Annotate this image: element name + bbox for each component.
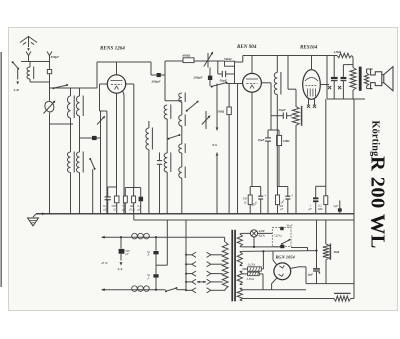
wire x97 down: [96, 62, 98, 88]
wire plate-choke link: [271, 115, 277, 117]
capacitor barr bottom: [280, 245, 284, 248]
selector row 2: [186, 263, 192, 265]
svg-text:REN 904: REN 904: [237, 44, 257, 50]
coil L7: [146, 128, 149, 150]
wire barr right: [291, 247, 308, 249]
wire variometer down: [49, 113, 51, 125]
arrow to L.A: [120, 254, 122, 261]
wire x271 down: [270, 83, 272, 130]
group2 top link: [278, 186, 288, 188]
resistor R-field zigzag: [334, 296, 351, 301]
dial lamp: [250, 230, 257, 237]
wire x237 grid leak: [237, 84, 239, 214]
svg-text:50µF: 50µF: [286, 224, 293, 228]
svg-text:4,5kΩ: 4,5kΩ: [333, 50, 342, 54]
wire x167 rail-drop: [166, 220, 168, 265]
wire L6 bottom to bus: [181, 178, 183, 214]
wire L3b top: [79, 88, 81, 96]
antenna symbol: [20, 37, 37, 43]
wire y124 run: [50, 123, 74, 125]
selector row 4: [186, 281, 192, 283]
wire grid REN904: [226, 83, 242, 85]
resistor 4.5kΩ zigzag: [337, 53, 352, 58]
wire g1 box bottom: [249, 205, 251, 214]
wire L3a top: [70, 88, 72, 96]
wire y100 to coil column: [165, 100, 182, 102]
mains line1: [102, 236, 225, 238]
wire U1 bottom lead: [116, 93, 118, 196]
HT wire y251: [242, 250, 316, 253]
wire y61 run2: [165, 60, 183, 62]
svg-text:L.A: L.A: [117, 267, 124, 271]
wire L3a bottom: [70, 118, 72, 124]
tube U3 pin left: [308, 99, 310, 105]
switch S2 arm: [89, 158, 91, 160]
capacitor 200µF black: [157, 73, 161, 77]
TA arrowhead upper: [216, 128, 219, 131]
capacitor C-out1: [331, 77, 338, 79]
capacitor C4 bars: [157, 160, 162, 162]
wire B+ x354 long: [353, 99, 355, 299]
rail y289: [242, 289, 306, 291]
wire coil bottom to y82: [29, 79, 31, 82]
wire y99 bottom run: [327, 98, 365, 100]
resistor 1MΩ-2 box: [277, 135, 282, 145]
capacitor barr top: [280, 227, 284, 230]
wire C-out1 leads: [333, 56, 335, 77]
transformer T1 core: [359, 67, 362, 91]
svg-text:Körting: Körting: [370, 121, 381, 157]
wire x151 down: [150, 62, 152, 75]
capacitor 200µF-2 black: [208, 76, 212, 80]
tube U2 internals: [246, 78, 258, 80]
wire U4 bottom-left: [272, 278, 278, 284]
coil L6 seg4: [179, 167, 182, 178]
variometer feed: [49, 88, 51, 101]
trimmer C2 arrow: [204, 53, 213, 67]
svg-text:µF: µF: [104, 208, 108, 211]
tube U2 REN904 envelope: [243, 73, 262, 92]
T2 winding W3: [237, 271, 242, 284]
transformer T1 primary: [352, 56, 354, 58]
capacitor 50µF g1: [258, 195, 263, 197]
wire L6 link3: [181, 153, 183, 167]
wire T1 sec bottom: [366, 86, 368, 89]
svg-text:1MΩ: 1MΩ: [283, 139, 290, 143]
svg-text:45 W: 45 W: [101, 261, 108, 265]
capacitor 50µF coupling: [218, 73, 223, 75]
junction HT: [315, 250, 317, 252]
wire L4a bottom to bus: [70, 173, 72, 214]
grid line RENS: [100, 83, 108, 85]
wire fork to cap: [49, 56, 51, 70]
wire L8 bottom: [276, 95, 278, 116]
fuse2 leads: [242, 273, 247, 275]
svg-text:4,8V: 4,8V: [258, 229, 266, 233]
capacitor 10µF: [267, 130, 269, 138]
selector row 5: [186, 289, 192, 291]
chassis ground bus: [36, 213, 354, 215]
wire x242 corner: [242, 56, 244, 63]
wire TA lower to bus: [216, 153, 218, 214]
T2 W4 leads: [240, 287, 243, 289]
capacitor 1µF blk: [313, 197, 318, 199]
wire U2 plate right: [261, 82, 271, 84]
wire TA upper: [216, 84, 218, 131]
capacitor 5µF blk small: [338, 208, 342, 211]
tube U4 RGN1054 envelope: [274, 263, 291, 280]
wire riser x133 upper: [133, 84, 135, 188]
speaker LS magnet: [371, 69, 382, 89]
wire lamp right: [258, 232, 273, 234]
wire L5 link: [166, 119, 168, 153]
capacitor 5µF m1: [155, 237, 157, 251]
choke1 loops: [132, 233, 138, 239]
wire grid res bottom to bus: [295, 126, 297, 214]
wire 5kΩ bottom: [325, 260, 327, 284]
capacitor 0.1µF cl: [107, 187, 109, 197]
capacitor 50µF-2: [277, 115, 283, 117]
tuning capacitor C1 line: [100, 111, 102, 214]
svg-text:10µF: 10µF: [258, 138, 266, 142]
junction d3: [155, 289, 157, 291]
svg-text:51kΩ: 51kΩ: [224, 57, 232, 61]
mains arrow1: [102, 236, 105, 239]
mains arrow2: [102, 288, 105, 291]
antenna Y fork: [26, 52, 31, 56]
capacitor 2µF: [313, 268, 320, 269]
svg-text:5kΩ: 5kΩ: [334, 250, 340, 254]
coil L8 anode choke: [274, 73, 277, 95]
tube U3 RES164 envelope: [303, 70, 321, 100]
wire U2 anode top: [251, 56, 253, 74]
selector plug link: [197, 281, 206, 283]
svg-text:1MΩ: 1MΩ: [217, 110, 224, 114]
capacitor C4 line: [159, 153, 161, 161]
coil L4b: [76, 152, 79, 173]
wire U1 plate-right link: [126, 83, 134, 85]
wire y55 top run: [243, 55, 337, 57]
svg-text:+: +: [291, 194, 293, 198]
wire L8 top: [276, 56, 278, 73]
wire 1MΩ-2 riser: [278, 130, 280, 135]
transformer T2 primary: [224, 237, 226, 242]
wire 5kΩ top: [325, 220, 327, 244]
capacitor C-pad black: [92, 136, 97, 140]
wire T1 primary bottom: [352, 90, 354, 99]
wire x316 drop: [316, 220, 318, 268]
wire C-out2 leads: [342, 65, 344, 77]
switch barr: [281, 243, 283, 245]
resistor 500Ω g2 box: [276, 195, 280, 205]
T2 winding W2: [237, 252, 242, 266]
wire x325 down: [325, 99, 327, 186]
wire L4b top: [79, 138, 81, 152]
capacitor 350pF Y fork: [47, 52, 52, 56]
switch S5 arm: [168, 138, 170, 140]
wire left column to bus: [49, 124, 51, 214]
wire U4 right: [291, 267, 299, 269]
tuning capacitor C3 arrow: [202, 116, 210, 124]
tube U1 RENS1264 envelope: [107, 75, 125, 93]
wire y130 link: [268, 129, 279, 131]
capacitor black cl4: [139, 197, 144, 202]
svg-text:RES164: RES164: [300, 45, 318, 51]
antenna coil L1: [27, 67, 30, 79]
resistor box cl3: [132, 196, 136, 203]
mains line2: [102, 289, 166, 291]
transformer T2 core: [231, 230, 233, 301]
wire y75 run: [151, 74, 165, 76]
wire box right down: [234, 66, 236, 83]
wire 1MΩ to bus: [228, 115, 230, 214]
wire y62 run: [97, 61, 151, 63]
wire y89 link: [288, 88, 296, 90]
coil L6 seg3: [179, 144, 182, 153]
arrowhead to L.B: [16, 82, 19, 85]
resistor box cl2: [123, 196, 127, 203]
wire coil top: [29, 62, 31, 68]
wire y265 link: [156, 264, 167, 266]
coil L3a: [67, 96, 70, 118]
choke2 loops: [132, 286, 138, 292]
barretter box dashed: [272, 228, 291, 247]
wire L5b to bus: [166, 172, 168, 214]
wire y61 run4: [208, 60, 225, 62]
resistor 5000Ω box: [114, 196, 119, 203]
scan dark left edge artifact: [0, 52, 2, 287]
resistor 500Ω g1 box: [248, 195, 252, 205]
wire cap down: [49, 74, 51, 82]
selector rail: [185, 220, 187, 290]
resistor 1MΩ box mid: [227, 107, 231, 115]
svg-text:200µF: 200µF: [151, 80, 162, 84]
wire U3 anode right: [320, 84, 329, 86]
wire L3b bottom to y138: [79, 116, 81, 138]
tube U1 internals: [111, 80, 123, 82]
coil L5b: [164, 153, 167, 172]
T2 W3 leads: [240, 270, 243, 272]
wire 1MΩ-2 down: [278, 146, 280, 187]
wire m2 down: [155, 278, 157, 290]
coil L3b: [76, 96, 79, 116]
wire T1 sec top: [366, 69, 368, 73]
speaker LS cone: [384, 67, 393, 91]
phone jack pin 1: [328, 86, 331, 89]
wire L7 top stub: [148, 121, 150, 128]
cluster link y187 right: [125, 187, 140, 189]
svg-text:50µF: 50µF: [279, 108, 287, 112]
group1 top link: [250, 186, 261, 188]
wire U2 cathode down: [251, 92, 253, 186]
wire y88 run: [50, 87, 98, 89]
resistor 600Ω box: [183, 58, 194, 63]
wire m-mid: [155, 254, 157, 265]
svg-text:5µF: 5µF: [333, 204, 338, 208]
wire L7 bottom to bus: [148, 150, 150, 214]
wire U1 anode top: [116, 62, 118, 75]
variometer L2: [43, 100, 55, 113]
band switch arm SA: [53, 87, 55, 89]
tuning capacitor C3 line: [205, 111, 207, 129]
svg-text:µF: µF: [280, 208, 284, 211]
T2 winding W1: [237, 234, 242, 247]
junction d2: [155, 236, 157, 238]
coil L4a: [67, 152, 70, 173]
fuse1 leads: [242, 268, 247, 270]
resistor 0.2MΩ box: [324, 196, 328, 205]
coil L6 seg2: [179, 115, 182, 126]
wire switch stub: [17, 70, 19, 80]
svg-text:2µF: 2µF: [307, 272, 314, 276]
wire y61 run3: [194, 60, 208, 62]
coil L5a: [164, 105, 167, 119]
wire switch to selector: [176, 289, 186, 291]
svg-text:350µF: 350µF: [50, 55, 61, 59]
transformer T1 secondary: [364, 73, 368, 86]
wire L4b bottom to bus: [79, 173, 81, 214]
wire antenna bus y61: [21, 61, 50, 63]
wire x165 vertical: [164, 61, 166, 101]
capacitor 50µF g2: [285, 195, 290, 197]
phone jack pin 2: [338, 86, 341, 89]
tube U3 pin right: [314, 99, 316, 105]
cluster link y187 left: [108, 186, 117, 188]
svg-text:(0,5): (0,5): [130, 208, 135, 211]
antenna arrowhead: [27, 48, 30, 51]
tube U3 internals: [305, 78, 318, 82]
svg-text:+: +: [264, 194, 266, 198]
wire x327 down: [326, 56, 328, 100]
tube U4 internals: [279, 265, 284, 268]
svg-text:R 200 WL: R 200 WL: [367, 156, 389, 249]
variometer arrow: [44, 102, 55, 114]
svg-text:T.A: T.A: [212, 143, 218, 147]
wire L6 link2: [181, 126, 183, 144]
wire 1MΩ riser: [228, 84, 230, 108]
svg-text:Ω: Ω: [114, 208, 116, 211]
selector row 3: [186, 273, 192, 275]
TA arrowhead lower: [216, 153, 219, 156]
heater rail: [134, 219, 354, 221]
tuning capacitor C1 arrow: [97, 117, 104, 125]
coil L6 seg1: [179, 93, 182, 102]
wire U3 top pin: [311, 56, 313, 70]
capacitor C-ant series box: [47, 70, 51, 74]
bottom rail: [242, 298, 334, 300]
svg-text:µF: µF: [138, 208, 142, 211]
T2 W1 leads: [240, 232, 243, 234]
switch S3 arm: [211, 86, 213, 88]
wire x277 to bus: [276, 116, 278, 187]
wire grid res top: [295, 89, 297, 106]
capacitor 500µF mains: [120, 237, 122, 248]
switch S4 arm: [186, 110, 188, 112]
svg-text:µF: µF: [122, 208, 126, 211]
resistor 5kΩ zigzag: [323, 244, 329, 260]
svg-text:0,1A: 0,1A: [259, 234, 265, 238]
capacitor C-out2: [341, 77, 347, 79]
wire 2µF bottom: [316, 271, 318, 283]
wire trimmer to cap: [209, 68, 211, 76]
wire T2 primary bottom: [224, 289, 226, 290]
svg-text:200µF: 200µF: [193, 76, 204, 80]
wire y82 corner down: [49, 82, 51, 88]
plus dot 2µF: [319, 272, 321, 274]
svg-text:L.B: L.B: [13, 88, 20, 92]
wire lamp stub: [253, 237, 255, 247]
resistor 51kΩ box: [225, 61, 235, 66]
ground arrow: [42, 212, 45, 215]
wire x217 down to cap: [217, 61, 219, 74]
svg-text:MΩ: MΩ: [317, 207, 323, 211]
wire y138 run: [80, 137, 101, 139]
svg-text:F: F: [147, 276, 150, 280]
svg-text:RGN 1054: RGN 1054: [276, 254, 296, 259]
fuse 0.05A: [248, 272, 260, 276]
svg-text:µF: µF: [309, 207, 313, 211]
mains switch arm: [165, 290, 167, 292]
capacitor 5µF m2: [155, 265, 157, 274]
svg-text:RENS 1264: RENS 1264: [100, 46, 125, 52]
trimmer C2 line: [207, 53, 209, 68]
svg-text:µF: µF: [125, 252, 129, 256]
ground symbol: [33, 214, 36, 217]
wire 1µF riser: [315, 186, 317, 197]
fuse 0.15A: [248, 267, 262, 271]
svg-text:600Ω: 600Ω: [183, 53, 191, 57]
junction d1: [120, 236, 122, 238]
rail y283: [306, 283, 354, 285]
resistor R-grid zigzag: [292, 107, 299, 126]
wire RGN anode drop: [272, 251, 274, 260]
wire U1 screen lead: [123, 91, 124, 95]
wire x288 down: [287, 56, 289, 90]
wire L4a top: [70, 124, 72, 152]
T2 W2 leads: [240, 250, 243, 252]
selector row 1: [186, 254, 192, 256]
bottom rail end: [351, 298, 354, 300]
T2 winding W4: [237, 288, 242, 300]
svg-text:F: F: [147, 253, 150, 257]
switch S1 mains-side: [12, 61, 14, 63]
wire y186 link: [316, 185, 326, 187]
rail corner x133: [133, 214, 135, 220]
wire L6 link1: [181, 102, 183, 115]
wire S2 to bus: [92, 169, 94, 214]
